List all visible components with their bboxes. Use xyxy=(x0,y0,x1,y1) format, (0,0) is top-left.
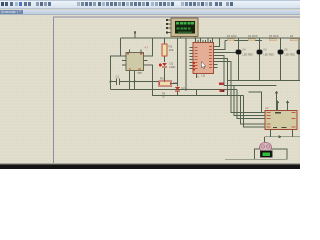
svg-text:LED-RED: LED-RED xyxy=(243,54,254,57)
diode pair D3 xyxy=(219,83,225,93)
wire U1 right bundle to U3 xyxy=(197,56,266,128)
label 1k xyxy=(162,92,166,99)
svg-text:D4: D4 xyxy=(243,49,247,52)
svg-text:U1: U1 xyxy=(202,74,206,78)
wire LED drops xyxy=(218,38,300,53)
power arrow VCC2 xyxy=(286,100,290,110)
LED resistor bus xyxy=(225,40,262,42)
microcontroller U1 xyxy=(190,38,218,74)
LED D1 xyxy=(159,62,176,70)
toolbar icons xyxy=(0,0,300,9)
svg-text:R2: R2 xyxy=(160,77,164,81)
toolbar xyxy=(0,0,300,9)
resistor R2 (horizontal, selected box) xyxy=(159,77,179,87)
bottom black bar xyxy=(0,165,300,169)
schematic svg overlay xyxy=(0,0,300,169)
resistor R5 xyxy=(269,35,279,41)
svg-text:4.7: 4.7 xyxy=(145,46,149,50)
capacitor C1 xyxy=(116,75,120,86)
resistor R4 xyxy=(248,35,258,41)
tab bar xyxy=(0,10,300,15)
svg-text:LED-RED: LED-RED xyxy=(264,54,275,57)
mouse cursor xyxy=(202,62,206,69)
svg-text:LED: LED xyxy=(170,65,177,69)
wire U1 to bus RP xyxy=(218,38,226,50)
tab: Schematic Capture xyxy=(0,10,23,14)
svg-text:10k: 10k xyxy=(173,81,178,85)
wire R1 chain xyxy=(165,38,187,96)
svg-text:R6: R6 xyxy=(290,35,294,38)
LED D2 xyxy=(175,86,185,91)
junction arrow motor net xyxy=(279,135,283,138)
IC U2 (square) xyxy=(122,46,149,76)
wire U3 bottom / motor net xyxy=(265,130,301,143)
resistor R3 xyxy=(227,35,237,41)
LED D5 xyxy=(257,49,275,57)
junction node D xyxy=(185,89,187,91)
svg-text:D2: D2 xyxy=(182,86,186,90)
LED D7 xyxy=(297,50,303,55)
svg-text:10k: 10k xyxy=(169,48,174,52)
svg-text:D6: D6 xyxy=(285,49,289,52)
svg-text:R5 220R: R5 220R xyxy=(269,35,279,38)
voltmeter display VM1 xyxy=(261,151,273,158)
LCD display LCD1 xyxy=(166,18,198,37)
svg-text:U3: U3 xyxy=(265,106,269,110)
motor M1 xyxy=(260,142,272,152)
svg-text:R3 220R: R3 220R xyxy=(227,35,237,38)
wire U2 left net xyxy=(111,56,238,90)
svg-text:LED-RED: LED-RED xyxy=(285,54,296,57)
LED D4 xyxy=(236,49,254,57)
svg-text:D5: D5 xyxy=(264,49,268,52)
junction node B xyxy=(110,81,112,83)
sheet border top edge xyxy=(54,17,301,164)
junction node C xyxy=(134,31,136,33)
wire U2 right to bus xyxy=(148,38,244,96)
svg-text:C1: C1 xyxy=(116,75,120,79)
svg-text:R4 220R: R4 220R xyxy=(248,35,258,38)
pin highlight dots xyxy=(193,62,195,70)
crystal X1 label xyxy=(196,74,206,79)
schematic grid area xyxy=(0,15,300,164)
motor driver U3 xyxy=(261,111,297,130)
LED D6 xyxy=(278,49,296,57)
wire LED cathode rail xyxy=(224,55,300,113)
wire ammeter loop xyxy=(225,149,287,159)
junction node A xyxy=(134,81,136,83)
wire LCD feed loop xyxy=(121,31,301,56)
power arrow feed xyxy=(275,91,279,110)
power arrow VCC1 xyxy=(276,100,280,110)
resistor R6 xyxy=(290,35,297,41)
resistor R1 (vertical) xyxy=(162,44,174,56)
svg-text:555: 555 xyxy=(138,71,143,75)
status strip line xyxy=(0,163,300,164)
